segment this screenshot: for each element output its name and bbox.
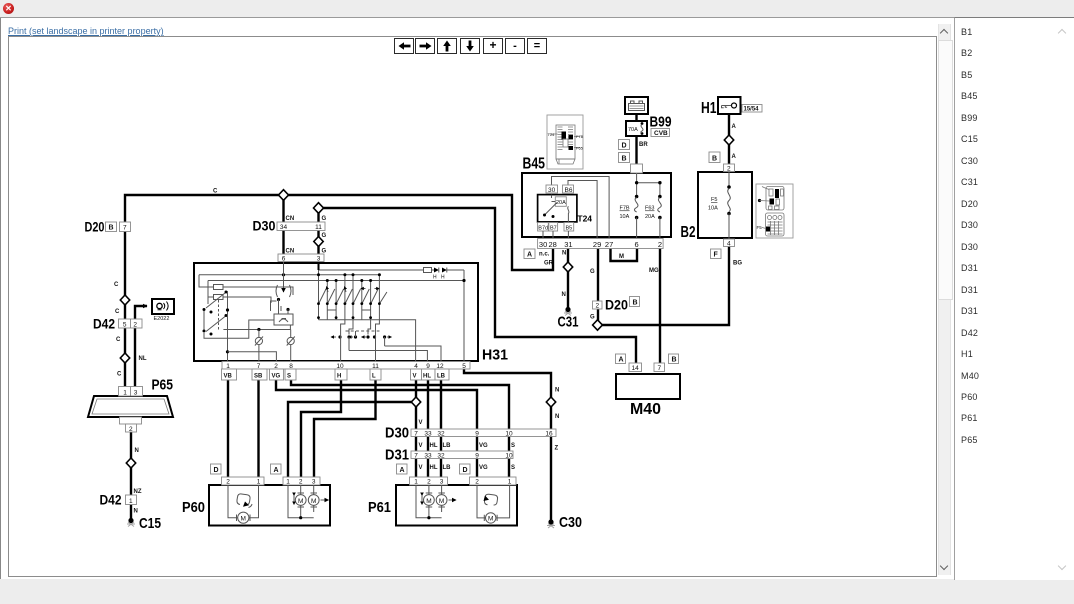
svg-text:70A: 70A bbox=[628, 127, 638, 133]
wire C main: D20-B-7 to B45-A-28 bbox=[125, 195, 553, 270]
svg-text:15/54: 15/54 bbox=[744, 107, 760, 113]
svg-text:5: 5 bbox=[462, 363, 466, 370]
svg-text:14: 14 bbox=[632, 365, 640, 372]
svg-text:D42: D42 bbox=[93, 316, 115, 332]
svg-text:M40: M40 bbox=[630, 401, 661, 418]
H31 internal bus line A2 bbox=[199, 274, 379, 276]
relay T24 pin box B6 bbox=[563, 185, 574, 193]
wire VB H31-1 to P60-D-2 bbox=[227, 367, 229, 477]
svg-text:1: 1 bbox=[129, 498, 133, 505]
svg-text:C31: C31 bbox=[558, 314, 579, 331]
wire VG D31-9 to P61-D-2 bbox=[476, 456, 478, 477]
H31 route to pin 9 bbox=[349, 351, 427, 364]
svg-text:M: M bbox=[439, 498, 444, 505]
connector letter B M40 bbox=[669, 354, 679, 364]
svg-text:9: 9 bbox=[475, 431, 479, 438]
connector letter A P61 bbox=[397, 464, 408, 474]
wire HL D31-33 to P61-A-2 bbox=[427, 456, 429, 477]
svg-text:L: L bbox=[372, 374, 376, 380]
svg-text:C: C bbox=[213, 189, 218, 195]
svg-text:30: 30 bbox=[548, 187, 556, 194]
svg-text:6: 6 bbox=[635, 240, 639, 249]
H31 switch matrix columns bbox=[319, 270, 380, 320]
svg-text:D: D bbox=[463, 467, 468, 474]
svg-text:VG: VG bbox=[479, 465, 488, 471]
svg-text:NL: NL bbox=[139, 356, 147, 362]
B2 pin 2 box bbox=[724, 164, 735, 172]
P61 right arrow bbox=[449, 499, 457, 501]
H31 washer contact 1 bbox=[258, 330, 260, 364]
connector D20 pin 7 box bbox=[120, 222, 131, 232]
svg-text:2: 2 bbox=[129, 426, 133, 433]
svg-text:F63: F63 bbox=[645, 206, 654, 212]
wire D30 pin11 branch up bbox=[319, 208, 637, 365]
svg-text:NZ: NZ bbox=[134, 489, 142, 495]
svg-text:H: H bbox=[337, 374, 341, 380]
svg-text:D31: D31 bbox=[385, 447, 409, 464]
fusebox B45 box bbox=[522, 173, 671, 237]
svg-text:2: 2 bbox=[658, 240, 662, 249]
P65 pedestal bbox=[120, 417, 142, 424]
svg-text:V: V bbox=[413, 374, 417, 380]
H31 internal wires from resistors bbox=[223, 287, 293, 303]
svg-text:29: 29 bbox=[593, 240, 601, 249]
svg-text:N: N bbox=[135, 448, 139, 454]
wiper motor P60 box bbox=[209, 485, 330, 526]
H31 internal top bus line A bbox=[319, 269, 425, 271]
svg-text:1: 1 bbox=[508, 479, 512, 486]
key symbol bbox=[732, 103, 737, 108]
svg-text:B7: B7 bbox=[550, 226, 557, 232]
H31 lower contact group 3 bbox=[366, 335, 369, 338]
wiper motor P61 box bbox=[396, 485, 517, 526]
svg-text:2: 2 bbox=[427, 479, 431, 486]
P61 updown arrow bbox=[421, 496, 423, 505]
P60 washer motor left bbox=[228, 485, 259, 518]
connector H31 top strip pins 6 3 bbox=[278, 254, 324, 262]
wire G/BG D20-2 via diamond to B2 pin4 bbox=[598, 246, 729, 325]
H31 internal left switch contacts bbox=[204, 293, 225, 332]
wire V D31-7 to P61-A-1 bbox=[415, 456, 417, 477]
svg-text:CVB: CVB bbox=[654, 130, 668, 137]
wire NL D42-2 to P65-3 bbox=[134, 328, 136, 388]
H31 lower contact group 2 bbox=[347, 335, 350, 338]
H31 internal park connections bbox=[204, 320, 274, 338]
svg-text:P61: P61 bbox=[368, 499, 391, 516]
svg-text:BG: BG bbox=[733, 261, 742, 267]
svg-text:B: B bbox=[672, 357, 677, 364]
svg-text:HL: HL bbox=[430, 443, 438, 449]
H31 internal pin6 arm with arrow bbox=[283, 262, 285, 292]
svg-text:H31: H31 bbox=[482, 347, 508, 364]
svg-text:A: A bbox=[527, 252, 532, 259]
wire SB H31-7 to P60-D-1 bbox=[257, 367, 259, 477]
battery symbol bbox=[629, 104, 645, 111]
wire MG B45 pin2 to M40 pin7 bbox=[659, 246, 661, 365]
wire D20-7 down through D42-5 to P65-1 bbox=[124, 233, 126, 388]
svg-text:C: C bbox=[115, 309, 120, 315]
B45 internal feed bus bbox=[637, 173, 660, 197]
H31 internal diode 2 bbox=[442, 268, 447, 273]
splice diamond V wire H31-4 bbox=[411, 397, 420, 407]
H31 internal left feed bbox=[199, 275, 214, 304]
wire V D30-7 to D31-7 bbox=[415, 434, 417, 451]
H31 internal contact parens bbox=[276, 285, 291, 297]
svg-text:S: S bbox=[511, 465, 515, 471]
svg-text:7: 7 bbox=[658, 365, 662, 372]
connector letter D P61 bbox=[460, 464, 471, 474]
H31 internal diode 1 bbox=[434, 268, 439, 273]
svg-text:LB: LB bbox=[443, 465, 452, 471]
svg-text:D42: D42 bbox=[100, 492, 122, 508]
wire B99 fuse to B45 top bbox=[635, 136, 637, 173]
wire branch D42-2 to E2022 bbox=[135, 306, 147, 321]
P61 A strip bbox=[410, 477, 448, 485]
P61 twin pump motors bbox=[416, 485, 442, 518]
svg-text:6: 6 bbox=[282, 256, 286, 263]
H31 internal resistor R2 bbox=[214, 295, 224, 300]
wire D30 pin34 to H31 pin6 bbox=[282, 229, 284, 258]
relay T24 contact bbox=[545, 195, 558, 215]
horn P65 bbox=[88, 396, 173, 417]
svg-text:VG: VG bbox=[479, 443, 488, 449]
svg-text:7: 7 bbox=[414, 453, 418, 460]
svg-text:10A: 10A bbox=[620, 214, 630, 220]
svg-text:T24: T24 bbox=[548, 132, 556, 137]
wire D30 pin11 to H31 pin3 bbox=[317, 229, 319, 258]
inset 1 pictogram bbox=[556, 125, 575, 159]
P60 D strip bbox=[222, 477, 265, 485]
connector letter B H1 bbox=[709, 152, 720, 163]
svg-text:A: A bbox=[619, 357, 624, 364]
svg-text:M: M bbox=[619, 254, 624, 260]
H31 internal lower bus bbox=[223, 325, 290, 330]
connector D20 letter B box bbox=[106, 222, 117, 232]
M40 pin 7 box bbox=[654, 363, 665, 372]
wire S D31-10 to P61-D-1 bbox=[508, 456, 510, 477]
svg-text:D20: D20 bbox=[85, 219, 105, 235]
splice diamond B45-31 N wire bbox=[563, 262, 572, 272]
svg-text:H1: H1 bbox=[701, 100, 717, 117]
B45 internal route 30 to pin27 bbox=[552, 177, 610, 239]
svg-text:2: 2 bbox=[475, 479, 479, 486]
svg-text:A: A bbox=[274, 467, 279, 474]
H31 internal bus line B bbox=[208, 280, 464, 282]
svg-text:n.c.: n.c. bbox=[539, 252, 550, 258]
svg-text:VB: VB bbox=[224, 374, 233, 380]
P61 D strip bbox=[470, 477, 517, 485]
wire H1 to B2 pin2 bbox=[728, 114, 730, 166]
svg-text:M: M bbox=[311, 498, 316, 505]
svg-text:A: A bbox=[400, 467, 405, 474]
svg-text:F5: F5 bbox=[711, 197, 717, 203]
svg-text:G: G bbox=[590, 315, 595, 321]
svg-text:32: 32 bbox=[437, 453, 445, 460]
H31 internal dashed selector bbox=[218, 300, 220, 331]
inset 2 bottom pictogram bbox=[766, 213, 785, 236]
svg-text:2: 2 bbox=[133, 322, 137, 329]
svg-text:B: B bbox=[622, 156, 627, 163]
svg-text:N: N bbox=[562, 292, 566, 298]
B2 pin 4 box bbox=[724, 239, 735, 247]
P60 wiper arm icon bbox=[237, 494, 250, 505]
B45 connector letter A bbox=[524, 249, 535, 259]
svg-text:20A: 20A bbox=[556, 200, 566, 206]
H31 internal resistor R3 bbox=[424, 268, 432, 273]
B45 bottom pin strip bbox=[538, 239, 664, 249]
P65 pin strip 1 3 bbox=[119, 387, 143, 397]
H31 internal right vertical to pin 5 bbox=[463, 270, 465, 363]
wire V branch diamond to P60-A-1 bbox=[288, 402, 416, 477]
svg-text:M: M bbox=[426, 498, 431, 505]
svg-text:V: V bbox=[419, 443, 423, 449]
svg-text:B: B bbox=[109, 225, 114, 232]
H31 washer contact 2 bbox=[290, 330, 292, 364]
svg-text:M: M bbox=[298, 498, 303, 505]
svg-text:B99: B99 bbox=[650, 114, 672, 131]
relay T24 box bbox=[538, 195, 577, 222]
svg-text:N: N bbox=[555, 388, 559, 394]
svg-text:S: S bbox=[287, 374, 291, 380]
ground C30 bbox=[548, 519, 553, 524]
H31 matrix bottom bus bbox=[319, 319, 380, 321]
P65 pin 2 box bbox=[126, 424, 137, 432]
svg-text:D30: D30 bbox=[253, 218, 276, 234]
wire B45-29 to D20-2 bbox=[597, 246, 599, 302]
svg-text:B5: B5 bbox=[566, 226, 573, 232]
connector letter A M40 bbox=[616, 354, 626, 364]
relay T24 pin box B7d bbox=[538, 223, 549, 232]
ground C15 bbox=[128, 518, 133, 523]
fuse holder B99 70A box bbox=[626, 121, 647, 136]
battery B99 box bbox=[625, 97, 648, 114]
splice diamond D30-11 to H31-3 bbox=[314, 237, 323, 247]
P60 twin pump motors bbox=[288, 485, 314, 518]
H31 internal contact dots bbox=[277, 298, 280, 301]
svg-text:F7B: F7B bbox=[576, 134, 584, 139]
svg-text:10A: 10A bbox=[708, 206, 718, 212]
svg-text:20A: 20A bbox=[645, 214, 655, 220]
fusebox B2 box bbox=[698, 172, 752, 238]
svg-text:P65: P65 bbox=[152, 377, 174, 394]
svg-text:T24: T24 bbox=[577, 214, 592, 224]
svg-text:D: D bbox=[214, 467, 219, 474]
svg-text:Z: Z bbox=[555, 446, 559, 452]
label box CVB bbox=[651, 129, 670, 137]
P60 right arrow bbox=[321, 499, 329, 501]
svg-text:F65: F65 bbox=[576, 146, 584, 151]
splice diamond above P65 bbox=[120, 353, 129, 363]
splice diamond N wire H31-5 bbox=[546, 397, 555, 407]
relay T24 pin box 30 bbox=[546, 185, 558, 193]
svg-text:2: 2 bbox=[226, 479, 230, 486]
wire HL H31-9 to D30-33 bbox=[427, 367, 429, 429]
wire B45-31 to C31 ground bbox=[567, 246, 569, 310]
svg-text:V: V bbox=[419, 465, 423, 471]
diagram content bbox=[125, 114, 729, 522]
P60 A strip bbox=[283, 477, 320, 485]
relay T24 pin box B7 bbox=[549, 223, 558, 232]
H31 wiper park box bbox=[274, 314, 293, 325]
svg-text:M: M bbox=[241, 516, 246, 523]
svg-text:10: 10 bbox=[505, 453, 513, 460]
svg-text:HL: HL bbox=[430, 465, 438, 471]
horn relay box E2022 bbox=[152, 299, 174, 314]
wire branch to D30 pin 34 bbox=[282, 195, 284, 224]
fuse F5 bbox=[727, 185, 731, 189]
connector D20 pin 2 box bbox=[593, 301, 603, 309]
svg-text:S: S bbox=[511, 443, 515, 449]
svg-text:2: 2 bbox=[596, 303, 600, 310]
svg-text:D20: D20 bbox=[605, 297, 628, 313]
H31 junction dot pin6 x line A bbox=[282, 273, 285, 276]
inset fusebox location box 2 bbox=[756, 184, 793, 238]
svg-text:B: B bbox=[633, 300, 638, 307]
svg-text:M: M bbox=[488, 516, 493, 523]
wire VG H31-2 to D30-9 bbox=[276, 367, 477, 429]
svg-text:E2022: E2022 bbox=[154, 316, 170, 322]
svg-text:31: 31 bbox=[564, 240, 572, 249]
wire M jumper B45 pin27 to pin6 bbox=[611, 246, 638, 261]
wire P65-2 to C15 ground bbox=[130, 431, 132, 521]
svg-text:7: 7 bbox=[414, 431, 418, 438]
svg-text:3: 3 bbox=[312, 479, 316, 486]
svg-text:F5: F5 bbox=[757, 225, 763, 230]
svg-text:BR: BR bbox=[639, 142, 648, 148]
svg-text:G: G bbox=[322, 216, 327, 222]
svg-text:C: C bbox=[117, 372, 122, 378]
svg-text:SB: SB bbox=[254, 374, 263, 380]
svg-text:B7d: B7d bbox=[538, 226, 548, 232]
H31 matrix lower dots bbox=[317, 316, 320, 319]
inset fusebox location box 1 bbox=[547, 115, 583, 169]
svg-text:H: H bbox=[441, 275, 445, 281]
svg-text:27: 27 bbox=[605, 240, 613, 249]
svg-text:16: 16 bbox=[545, 431, 553, 438]
wire L H31-11 to P60-A-3 bbox=[314, 367, 376, 477]
H31 dashed link bbox=[346, 330, 380, 332]
switch unit H31 box bbox=[194, 263, 478, 361]
H31 internal line to pin2 bbox=[228, 352, 277, 363]
relay pin stubs to strip bbox=[543, 231, 568, 239]
H31 internal links to park box bbox=[279, 300, 289, 315]
fuse F63 bbox=[658, 195, 662, 199]
svg-text:C: C bbox=[116, 337, 121, 343]
splice diamond G BG junction bbox=[593, 320, 603, 330]
wire B99 battery to fuse bbox=[635, 114, 637, 122]
wire V H31-4 to D30-7 bbox=[415, 367, 417, 429]
svg-text:CN: CN bbox=[286, 216, 295, 222]
svg-text:F7B: F7B bbox=[620, 206, 630, 212]
svg-text:7: 7 bbox=[123, 225, 127, 232]
svg-text:C: C bbox=[114, 282, 119, 288]
svg-text:B45: B45 bbox=[523, 156, 546, 173]
wire S H31-8 to D30-10 bbox=[291, 367, 509, 429]
svg-text:LB: LB bbox=[437, 374, 446, 380]
svg-text:A: A bbox=[732, 154, 737, 160]
wire Z D30-16 to C30 ground bbox=[550, 434, 552, 522]
connector D42 strip bbox=[119, 319, 143, 328]
H31 route to pin 4 bbox=[379, 320, 415, 363]
P61 wiper motor right bbox=[477, 485, 510, 518]
connector letter D P60 bbox=[211, 464, 222, 474]
wire H31 pin5 to D30 pin16 bbox=[464, 367, 551, 429]
svg-text:30: 30 bbox=[539, 240, 547, 249]
wire S D30-10 to D31-10 bbox=[508, 434, 510, 451]
relay T24 fuse 20A box bbox=[555, 197, 566, 207]
splice diamond D30-11 corner bbox=[314, 203, 324, 214]
H31 lower contact group 4 bbox=[383, 335, 386, 338]
svg-text:34: 34 bbox=[280, 224, 288, 231]
E2022 horn icon bbox=[157, 303, 162, 308]
svg-text:D30: D30 bbox=[385, 425, 409, 442]
svg-text:1: 1 bbox=[414, 479, 418, 486]
svg-text:33: 33 bbox=[424, 431, 432, 438]
connector letter B B99 bbox=[619, 153, 630, 163]
svg-text:C15: C15 bbox=[139, 515, 161, 532]
svg-text:GR: GR bbox=[544, 261, 554, 267]
svg-text:HL: HL bbox=[423, 374, 431, 380]
svg-text:G: G bbox=[322, 233, 327, 239]
svg-text:H: H bbox=[433, 275, 437, 281]
connector D42 pin 1 box bbox=[126, 495, 137, 505]
svg-text:2: 2 bbox=[299, 479, 303, 486]
svg-text:2: 2 bbox=[727, 166, 731, 173]
svg-text:11: 11 bbox=[315, 224, 322, 231]
B45 internal route B6 to pin29 bbox=[568, 181, 597, 239]
P60 updown arrow bbox=[293, 496, 295, 505]
svg-text:F: F bbox=[714, 252, 719, 259]
B2 internal wire bbox=[728, 172, 730, 186]
splice diamond H1 A wire bbox=[724, 135, 733, 145]
H31 internal main left vertical to pin1 bbox=[227, 291, 229, 363]
label box 15/54 bbox=[742, 105, 762, 113]
svg-text:10: 10 bbox=[505, 431, 513, 438]
svg-text:1: 1 bbox=[286, 479, 290, 486]
connector letter B D20 mid bbox=[630, 297, 640, 307]
splice diamond D20 wire C bbox=[120, 295, 129, 305]
svg-text:28: 28 bbox=[549, 240, 557, 249]
H31 internal pin3 stub bbox=[318, 262, 320, 270]
svg-text:P60: P60 bbox=[182, 499, 205, 516]
B45 entry connector box bbox=[631, 164, 643, 173]
wire HL D30-33 to D31-33 bbox=[427, 434, 429, 451]
svg-text:N: N bbox=[562, 251, 566, 257]
svg-text:33: 33 bbox=[424, 453, 432, 460]
connector letter A P60 bbox=[271, 464, 282, 474]
svg-text:MG: MG bbox=[649, 268, 659, 274]
splice diamond on wire C bbox=[279, 190, 289, 201]
P61 wiper arm icon bbox=[484, 494, 497, 505]
svg-text:3: 3 bbox=[440, 479, 444, 486]
connector D30 strip bbox=[411, 429, 556, 437]
H31 matrix contact diagonals bbox=[319, 289, 387, 303]
H31 wire label cells bbox=[222, 369, 237, 380]
svg-text:4: 4 bbox=[727, 241, 731, 248]
wire VG D30-9 to D31-9 bbox=[476, 434, 478, 451]
H31 matrix lower links bbox=[327, 310, 379, 335]
svg-text:V: V bbox=[419, 420, 423, 426]
svg-text:N: N bbox=[555, 414, 559, 420]
svg-text:LB: LB bbox=[443, 443, 452, 449]
svg-text:9: 9 bbox=[475, 453, 479, 460]
svg-text:1: 1 bbox=[257, 479, 261, 486]
svg-text:3: 3 bbox=[317, 256, 321, 263]
relay T24 pin box B5 bbox=[564, 223, 574, 232]
H31 bottom pin strip bbox=[222, 362, 470, 370]
H31 internal bracket bbox=[271, 301, 282, 311]
inset 2 top pictogram bbox=[766, 187, 784, 211]
